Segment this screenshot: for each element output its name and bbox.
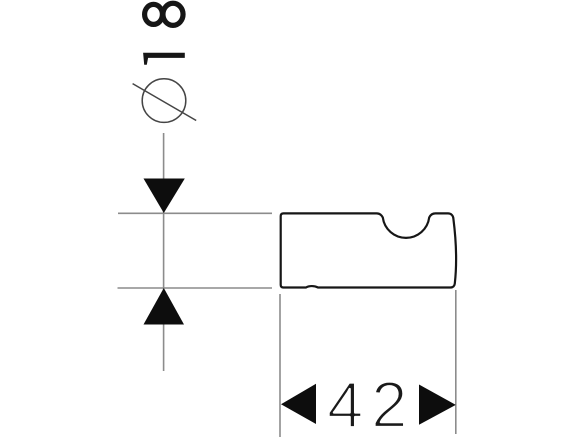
svg-text:42: 42 [327, 368, 415, 441]
